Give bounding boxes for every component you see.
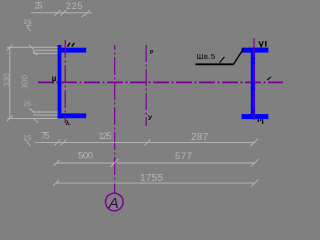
left extension line y=50	[33, 49, 58, 51]
tick at x=63.5 top	[61, 10, 67, 16]
svg-text:330: 330	[3, 73, 12, 87]
svg-text:µ: µ	[52, 74, 57, 83]
mark V1 above I-beam flange	[259, 41, 263, 46]
svg-text:577: 577	[175, 151, 192, 162]
row2 tick x=114.5	[111, 159, 119, 167]
left extension line y=118	[7, 117, 58, 119]
svg-text:25: 25	[23, 101, 31, 108]
tick above bottom flange x=31	[30, 108, 34, 112]
axis line x=65 (channel axis)	[64, 40, 66, 123]
left extension line y=115	[33, 114, 58, 116]
channel C1 top flange	[58, 48, 87, 53]
tick at (10,118)	[7, 115, 13, 121]
row1 tick x=57.5	[55, 139, 61, 145]
weld label leader	[234, 48, 244, 64]
tick below bottom flange x=36	[34, 119, 38, 123]
svg-text:25: 25	[24, 136, 33, 142]
top dimension line	[31, 12, 92, 14]
row1 tick x=63.5	[61, 139, 67, 145]
axis line x=115 (section axis down to mark A)	[114, 45, 116, 193]
leader underline	[27, 24, 31, 26]
svg-text:125: 125	[99, 131, 112, 141]
channel C1 web	[58, 45, 62, 118]
tick above flange at x=31	[29, 45, 33, 49]
svg-text:300: 300	[21, 74, 30, 89]
left extension line y=53	[33, 52, 58, 54]
row3 tick x=56	[53, 180, 59, 186]
I-beam B1 top flange	[242, 48, 269, 53]
bottom dim row 1 line	[35, 141, 255, 143]
row1 tick x=254	[251, 139, 259, 146]
row1 tick x=147.5	[145, 139, 151, 145]
row2 tick x=254.5	[251, 159, 259, 166]
left extension line y=47	[7, 46, 58, 48]
horizontal centerline y=82	[38, 81, 283, 83]
svg-text:Шв.5: Шв.5	[197, 52, 216, 61]
bottom dim row 3 line	[57, 182, 256, 184]
svg-text:1755: 1755	[140, 173, 163, 184]
I-beam B1 web	[251, 48, 255, 120]
bottom dim row 2 line	[57, 162, 114, 164]
left extension line y=112	[33, 111, 58, 113]
row3 tick x=254.5	[251, 179, 259, 186]
tick at x=87 top	[84, 10, 90, 16]
axis line x=254 (I-beam axis)	[253, 38, 255, 120]
channel C1 bottom flange	[58, 113, 87, 118]
svg-text:287: 287	[191, 132, 208, 143]
leader diagonal	[27, 26, 31, 31]
tick below flange line at x=35	[33, 51, 37, 55]
svg-text:λ.: λ.	[66, 121, 71, 127]
marks below I-beam bottom flange	[257, 119, 259, 122]
tick at x=57.5 top	[55, 10, 61, 16]
weld label underline	[196, 63, 235, 65]
tick at (10,47)	[7, 44, 13, 50]
I-beam B1 bottom flange	[242, 114, 269, 119]
small slash right of I-beam at centerline	[267, 77, 271, 80]
svg-text:500: 500	[78, 151, 93, 162]
weld marks above channel flange	[68, 43, 71, 47]
axis line x=146	[145, 45, 147, 126]
section mark circle A	[106, 193, 124, 211]
weld label slash	[220, 57, 225, 63]
svg-text:A: A	[108, 195, 119, 212]
svg-text:225: 225	[66, 1, 83, 11]
svg-text:75: 75	[41, 131, 50, 141]
row1 leader diagonal	[26, 140, 31, 146]
small mark below tick 87	[82, 15, 85, 17]
svg-text:25: 25	[35, 1, 43, 11]
vertical dimension line x=10	[9, 47, 11, 118]
row2 tick x=56.5	[54, 160, 60, 166]
